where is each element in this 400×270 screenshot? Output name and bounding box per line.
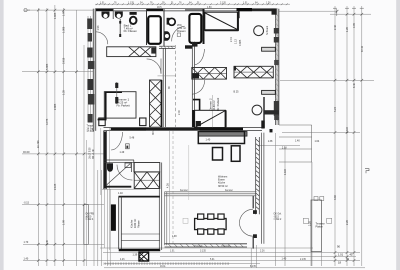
dim line left vertical 2 — [46, 8, 48, 266]
svg-text:3.615: 3.615 — [63, 57, 66, 64]
dim horizontal left mid2 — [22, 153, 104, 155]
text labels (tiny) — [23, 23, 325, 260]
dim horizontal left low2 — [23, 243, 104, 245]
wall blob middle wall right end — [270, 129, 273, 132]
hatched column bedroom1 right — [150, 80, 162, 127]
chairs top row — [198, 214, 204, 219]
svg-text:17.5/28: 17.5/28 — [87, 131, 95, 133]
svg-text:1.64: 1.64 — [315, 140, 320, 143]
circle fixture room right bottom — [252, 105, 262, 115]
door frame blob corridor top — [193, 42, 198, 47]
svg-text:5.48: 5.48 — [130, 137, 135, 140]
closet bar right room bottom2 — [264, 110, 279, 114]
wc door post — [185, 45, 192, 48]
svg-text:10.735: 10.735 — [37, 140, 40, 148]
svg-text:3.135: 3.135 — [200, 251, 206, 253]
svg-text:0.99: 0.99 — [353, 23, 356, 28]
dim line right vertical 3 — [353, 6, 355, 266]
kitchen counter L outline — [198, 132, 244, 144]
window blob right 1a — [274, 28, 279, 34]
svg-text:Fliesen: Fliesen — [137, 220, 140, 228]
svg-text:1.01: 1.01 — [170, 251, 175, 253]
top exterior wall — [95, 9, 278, 11]
wall between toilets and sink — [112, 9, 114, 19]
door leaf bedroom1 — [160, 59, 162, 74]
svg-text:9.80 m²: 9.80 m² — [133, 219, 137, 228]
svg-text:3.82: 3.82 — [334, 195, 337, 200]
svg-text:1.40: 1.40 — [118, 192, 123, 195]
svg-text:2.135: 2.135 — [220, 2, 226, 4]
sink lower WC — [125, 163, 131, 168]
svg-text:16x17.5/28: 16x17.5/28 — [90, 147, 92, 159]
WC room lower-left walls — [101, 128, 160, 250]
svg-text:4.075: 4.075 — [46, 118, 49, 125]
dim horizontal bottom 6 — [104, 267, 365, 269]
window band living/terrace — [165, 192, 257, 246]
svg-text:B 25: B 25 — [234, 91, 240, 94]
kitchen right wall — [158, 172, 160, 250]
kitchen counter leg — [231, 146, 240, 162]
dim horizontal bottom 5 ruler — [104, 263, 260, 265]
svg-text:2.885: 2.885 — [54, 103, 57, 110]
hatched box hall left — [192, 68, 227, 80]
svg-text:16.80 m²: 16.80 m² — [212, 100, 216, 111]
svg-text:1.70: 1.70 — [24, 241, 29, 244]
svg-text:1.26: 1.26 — [346, 27, 349, 32]
window sill marks dining bottom — [180, 189, 233, 248]
window blob right 1c — [274, 60, 278, 65]
door blob between hall boxes — [234, 67, 237, 71]
right exterior wall — [272, 9, 280, 125]
floor drain bathroom2 — [177, 33, 180, 36]
dim line left vertical 5 — [76, 10, 78, 266]
dim horizontal right top — [279, 10, 337, 12]
door arc bedroom1 — [147, 59, 161, 74]
svg-text:±0.00: ±0.00 — [23, 150, 30, 154]
dim horizontal left low1 — [22, 204, 104, 206]
svg-text:1.49: 1.49 — [120, 151, 125, 154]
corridor dashed center line — [174, 45, 176, 127]
svg-text:Fliesen: Fliesen — [177, 29, 186, 33]
svg-text:4.26: 4.26 — [167, 183, 170, 188]
dim horizontal right mid3 — [258, 144, 300, 146]
svg-text:1.40: 1.40 — [295, 140, 300, 143]
svg-text:1.365: 1.365 — [63, 26, 66, 33]
bracket mark right — [365, 169, 369, 174]
door blobs bedroom closet — [115, 83, 118, 88]
svg-text:2.26: 2.26 — [309, 221, 312, 226]
tiny numbers on top chain — [100, 2, 271, 8]
wall pier right room bottom — [261, 121, 264, 129]
window blob left 5 — [87, 79, 93, 90]
svg-text:Zimmer 2: Zimmer 2 — [209, 98, 213, 111]
dim line below building 1 — [93, 131, 95, 266]
dim line right vertical 4 — [361, 6, 363, 266]
dining table — [195, 219, 227, 230]
svg-text:2.135: 2.135 — [300, 259, 306, 261]
bidet bathroom2 — [164, 31, 170, 40]
wall right of bathroom1 — [163, 9, 165, 46]
svg-text:1.40: 1.40 — [282, 257, 287, 260]
dim line right vertical 1 — [334, 6, 336, 266]
dim chain top — [95, 3, 290, 5]
door frame blob corridor mid — [193, 74, 200, 79]
window blob right 1b — [274, 37, 279, 43]
hatched box kitchen bottom — [139, 252, 149, 261]
svg-text:1.01: 1.01 — [338, 253, 344, 257]
svg-text:Fensterb.: Fensterb. — [222, 244, 231, 247]
french door posts — [253, 210, 257, 214]
svg-text:2.26: 2.26 — [346, 220, 349, 225]
door arc bathroom1 left — [96, 32, 108, 44]
svg-text:2.00: 2.00 — [178, 110, 181, 115]
svg-text:Treppe: Treppe — [87, 125, 95, 128]
bathtub B vertical — [189, 14, 201, 43]
toilet lower WC — [107, 164, 130, 185]
staircase box lower hall — [195, 110, 226, 128]
entrance side lines — [104, 189, 106, 248]
svg-text:18 Stg: 18 Stg — [87, 127, 94, 130]
kitchen island — [213, 148, 223, 161]
svg-text:8.135: 8.135 — [250, 266, 256, 268]
tick marks on left dim lines — [37, 9, 85, 262]
bed bedroom1 — [104, 92, 136, 118]
door arc bathroom1 right — [172, 26, 185, 41]
tick marks on right dim lines — [333, 8, 364, 262]
svg-text:±0.00: ±0.00 — [86, 216, 92, 218]
svg-text:OK Gel.: OK Gel. — [274, 214, 283, 216]
nightstand right — [140, 118, 146, 126]
svg-text:2.01: 2.01 — [230, 37, 233, 42]
dim horizontal bottom 3 — [160, 256, 356, 258]
toilet C bathroom2 — [167, 18, 176, 26]
dim line below building 2 — [97, 170, 99, 266]
svg-text:3.45: 3.45 — [46, 240, 49, 245]
dim line right vertical 5 — [284, 148, 286, 266]
svg-text:1.39: 1.39 — [133, 254, 138, 257]
left exterior wall — [87, 9, 96, 131]
terrace column right — [311, 200, 322, 252]
hatched box hall right — [234, 66, 273, 78]
svg-text:Platten: Platten — [316, 225, 324, 228]
small marks above terrace — [314, 197, 318, 201]
french door dining right — [239, 209, 253, 236]
svg-text:OK FFB: OK FFB — [86, 214, 95, 216]
corner blob top-right — [272, 9, 277, 15]
tiny numbers bottom lines — [120, 244, 353, 268]
window blob right 3 — [274, 115, 278, 121]
closet door line bedroom — [116, 82, 118, 104]
svg-text:2.26: 2.26 — [260, 251, 265, 253]
dim line corridor top — [158, 75, 177, 77]
svg-text:Fenster: Fenster — [180, 189, 188, 192]
door arc room right top — [195, 49, 205, 65]
svg-text:Fenster: Fenster — [225, 189, 233, 192]
nightstand left — [99, 118, 105, 126]
svg-text:8.40: 8.40 — [353, 83, 356, 88]
svg-text:5.24: 5.24 — [334, 107, 337, 112]
hatched box bedroom1 top — [107, 47, 156, 57]
dim vertical below dining wall 1 — [250, 248, 252, 268]
svg-text:-0.15: -0.15 — [274, 216, 280, 218]
window blob left 4 — [88, 61, 94, 69]
wc bottom wall — [159, 46, 175, 48]
door arc wc lower — [117, 165, 132, 181]
ruler ticks on bottom scale line — [104, 262, 229, 265]
door arc lower hall — [111, 132, 123, 150]
svg-text:1.50: 1.50 — [207, 7, 212, 9]
kitchen counter bottom band — [121, 234, 160, 240]
window blob right 2 — [274, 101, 279, 116]
dim line right vertical 2 — [346, 6, 348, 266]
svg-text:1.40: 1.40 — [206, 138, 211, 141]
hatched box chimney kitchen top — [134, 163, 160, 189]
svg-text:1.825: 1.825 — [54, 12, 57, 19]
tick marks on top dim chain — [96, 3, 288, 5]
dim horizontal bottom 4 — [23, 260, 360, 262]
door frame blob corridor bottom — [196, 121, 201, 126]
left photo edge strip — [0, 0, 4, 270]
corridor walls — [163, 42, 212, 128]
svg-text:18.5: 18.5 — [157, 7, 162, 9]
svg-text:2.98: 2.98 — [282, 147, 287, 150]
arrow end of top-left dim line — [24, 9, 30, 12]
svg-text:1.38: 1.38 — [172, 236, 177, 238]
svg-text:1.99: 1.99 — [63, 11, 66, 16]
svg-text:1.99: 1.99 — [63, 220, 66, 225]
svg-text:1.01: 1.01 — [100, 2, 105, 4]
toilet B top-left — [115, 12, 123, 19]
door stop mark lower hall — [126, 144, 130, 149]
svg-text:1.01: 1.01 — [243, 2, 248, 4]
svg-text:5.01: 5.01 — [210, 259, 215, 261]
stair wall stub top right — [238, 11, 240, 18]
staircase box top — [205, 12, 239, 30]
kitchen bottom wall — [119, 249, 161, 251]
dim horizontal left mid1 — [22, 71, 96, 73]
terrace steps right — [279, 125, 312, 162]
closet divider room2 — [263, 97, 265, 128]
dim line left vertical 3 — [54, 5, 56, 266]
svg-text:OK +1.40: OK +1.40 — [93, 149, 95, 159]
small stamp marks outside bottom — [303, 218, 308, 223]
terrace right edge extension — [311, 162, 313, 266]
svg-text:2.125: 2.125 — [54, 183, 57, 190]
dining right exterior wall lines — [261, 133, 264, 244]
svg-text:19.11: 19.11 — [160, 266, 166, 268]
dim horizontal right mid1 — [280, 79, 374, 81]
hatched wall strip living right — [256, 137, 260, 214]
svg-text:4.26: 4.26 — [120, 259, 125, 261]
dining bottom wall hatched — [165, 244, 248, 247]
kitchen left wall — [119, 197, 122, 249]
dim line left vertical 4 — [63, 8, 65, 266]
dim horizontal top-left — [24, 9, 95, 11]
window blob left 6 — [88, 94, 94, 105]
closet bar right room top — [262, 47, 276, 51]
svg-text:Küche: Küche — [130, 219, 134, 228]
svg-text:5.985: 5.985 — [46, 63, 49, 70]
rotated dimension number marks — [37, 11, 364, 245]
window blob left 1 — [87, 19, 92, 30]
svg-text:-0.15: -0.15 — [24, 202, 30, 205]
svg-text:Schrank: Schrank — [266, 25, 269, 35]
dim vertical below dining wall 2 — [256, 245, 258, 268]
svg-text:1.25: 1.25 — [63, 90, 66, 95]
svg-text:= 312.2: = 312.2 — [274, 219, 282, 221]
door arc room right bottom — [193, 80, 205, 94]
right photo edge strip — [396, 0, 400, 270]
dining right wall — [252, 196, 254, 209]
window blob left 7 — [88, 114, 93, 123]
svg-text:10.11: 10.11 — [361, 45, 364, 52]
dim horizontal bottom 1 — [100, 247, 313, 249]
svg-text:0.885: 0.885 — [239, 39, 242, 46]
svg-text:1.40: 1.40 — [24, 257, 29, 260]
window blob left 3 — [87, 48, 92, 58]
dim line left vertical 6 — [83, 45, 85, 266]
dim line below building 0 — [85, 140, 87, 266]
dim line left vertical 1 — [37, 8, 39, 266]
dim line below building 3 — [101, 170, 103, 266]
entrance black wall post — [111, 204, 116, 230]
dim line below right wall — [275, 133, 277, 266]
svg-text:6.115: 6.115 — [346, 126, 349, 133]
svg-text:1.135: 1.135 — [128, 2, 134, 4]
dim horizontal right mid2 — [282, 132, 360, 134]
sink A bathroom1 — [130, 12, 137, 24]
svg-text:= 312.4: = 312.4 — [86, 219, 94, 221]
svg-text:Fb: Parkett: Fb: Parkett — [117, 104, 130, 108]
svg-text:Fensterb.: Fensterb. — [195, 244, 204, 247]
dim horizontal bottom 2 — [103, 252, 360, 254]
svg-text:38.50 m²: 38.50 m² — [218, 185, 228, 188]
bathtub A vertical — [148, 16, 161, 44]
window blob left 2 — [88, 33, 92, 42]
svg-text:1.115: 1.115 — [284, 168, 287, 175]
svg-text:1.26: 1.26 — [266, 2, 271, 4]
wall segment left of bathtub A — [146, 9, 148, 45]
svg-text:Fb: Parkett: Fb: Parkett — [216, 98, 220, 111]
toilet A top-left — [102, 12, 110, 19]
svg-text:2.42: 2.42 — [334, 25, 337, 30]
closet bar right room bottom — [262, 90, 276, 94]
circle fixture room right top — [254, 26, 264, 36]
svg-text:1.93: 1.93 — [97, 25, 100, 30]
kitchen counter L top shaded — [198, 132, 247, 137]
svg-text:1.38: 1.38 — [268, 140, 273, 143]
middle interior wall — [104, 127, 263, 130]
terrace rect side extensions — [310, 252, 312, 266]
left outside post — [84, 205, 89, 245]
interior wall step bedroom1 left — [98, 91, 122, 119]
svg-text:Fb: Fliesen: Fb: Fliesen — [124, 29, 138, 33]
partition bath1 — [119, 19, 121, 37]
dining interior line — [168, 131, 170, 244]
svg-text:1.13: 1.13 — [235, 39, 238, 44]
chairs bottom row — [198, 229, 204, 234]
svg-text:36.5: 36.5 — [152, 130, 155, 135]
wall right of bathtub B — [203, 9, 205, 44]
